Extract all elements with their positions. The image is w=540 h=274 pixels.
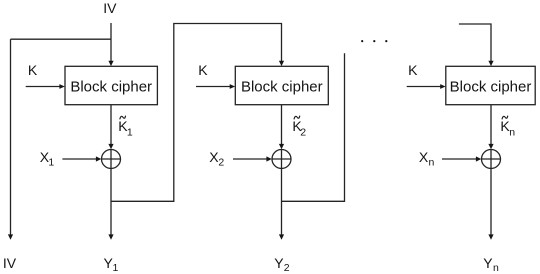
XOR gate A2 cross — [272, 158, 291, 160]
wire X1 input arrow line — [62, 158, 97, 160]
wire U2 output vertical to XOR2 — [281, 105, 283, 145]
block cipher U1 box — [65, 66, 157, 104]
svg-text:Block cipher: Block cipher — [70, 79, 152, 96]
wire left IV rail vertical — [10, 39, 12, 235]
arrowhead K3 into U3 — [440, 84, 445, 89]
ellipsis dots between columns — [361, 40, 363, 42]
XOR gate A3 circle — [482, 150, 501, 169]
svg-text:K: K — [28, 62, 38, 78]
arrowhead into U1 top — [108, 61, 113, 66]
wire XOR2 output vertical to Y2 — [281, 169, 283, 236]
arrowhead Y2 output — [279, 234, 284, 239]
XOR gate A3 cross — [482, 158, 501, 160]
svg-text:1: 1 — [127, 127, 133, 139]
svg-text:n: n — [509, 127, 515, 139]
svg-text:IV: IV — [3, 255, 17, 271]
arrowhead U3 output into XOR3 — [488, 144, 493, 149]
svg-text:Block cipher: Block cipher — [241, 79, 323, 96]
tilde accent of K tilde 1 — [120, 116, 126, 119]
arrowhead X1 into XOR1 — [96, 156, 101, 161]
wire branch horizontal from IV line to left rail — [11, 38, 112, 40]
svg-text:1: 1 — [113, 262, 119, 274]
arrowhead U2 output into XOR2 — [279, 144, 284, 149]
svg-text:n: n — [493, 262, 499, 274]
XOR gate A1 cross — [102, 158, 121, 160]
arrowhead K1 into U1 — [59, 84, 64, 89]
svg-text:n: n — [429, 156, 435, 168]
arrowhead feedback into U2 top — [279, 61, 284, 66]
wire K1 input arrow line — [26, 86, 61, 88]
svg-text:K: K — [198, 62, 208, 78]
wire X2 input arrow line — [233, 158, 268, 160]
tilde accent of K tilde n — [502, 116, 508, 119]
svg-text:2: 2 — [284, 262, 290, 274]
wire XOR3 output vertical to Yn — [490, 169, 492, 236]
svg-text:2: 2 — [300, 127, 306, 139]
svg-text:Y: Y — [483, 255, 493, 271]
arrowhead K2 into U2 — [230, 84, 235, 89]
wire input stub into block cipher U3 — [459, 24, 491, 62]
arrowhead IV bottom output — [8, 234, 13, 239]
svg-text:1: 1 — [48, 156, 54, 168]
arrowhead Y1 output — [108, 234, 113, 239]
wire K3 input arrow line — [407, 86, 442, 88]
svg-text:2: 2 — [218, 156, 224, 168]
arrowhead X2 into XOR2 — [266, 156, 271, 161]
svg-text:X: X — [419, 149, 429, 165]
svg-text:IV: IV — [103, 0, 117, 16]
wire U3 output vertical to XOR3 — [490, 105, 492, 145]
XOR gate A1 circle — [102, 150, 121, 169]
arrowhead Xn into XOR3 — [476, 156, 481, 161]
wire U1 output vertical to XOR1 — [110, 105, 112, 145]
arrowhead stub into U3 top — [488, 61, 493, 66]
svg-text:K: K — [408, 62, 418, 78]
block cipher U2 box — [235, 66, 328, 104]
wire Xn input arrow line — [442, 158, 477, 160]
wire XOR1 output vertical to Y1 — [110, 169, 112, 236]
arrowhead U1 output into XOR1 — [108, 144, 113, 149]
block cipher U3 box — [446, 66, 535, 104]
svg-text:Y: Y — [274, 255, 284, 271]
wire feedback chain 2 (truncated at ellipsis) — [282, 53, 345, 201]
svg-text:Block cipher: Block cipher — [450, 79, 532, 96]
wire IV top vertical into block cipher U1 — [110, 23, 112, 62]
wire K2 input arrow line — [196, 86, 231, 88]
XOR gate A2 circle — [272, 150, 291, 169]
tilde accent of K tilde 2 — [294, 116, 300, 119]
wire feedback chain 1 to block cipher U2 — [111, 24, 282, 202]
arrowhead Yn output — [488, 234, 493, 239]
